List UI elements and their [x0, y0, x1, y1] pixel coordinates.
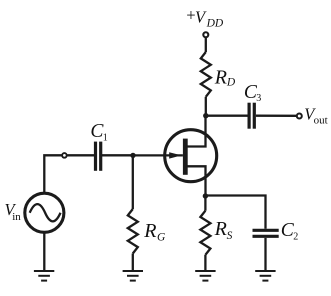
node drain junction — [203, 113, 208, 118]
source Vin sine wave — [30, 204, 61, 221]
svg-text:3: 3 — [256, 93, 261, 104]
svg-text:2: 2 — [293, 232, 298, 243]
svg-text:G: G — [157, 232, 166, 244]
wire C1 to gate node — [102, 154, 133, 156]
transistor Q1 JFET circle — [165, 130, 217, 182]
ground below Vin — [34, 271, 54, 281]
wire drain node to C3 — [206, 115, 248, 117]
terminal input — [62, 153, 67, 158]
wire RG to ground — [132, 254, 134, 271]
capacitor C3 — [249, 103, 254, 129]
label RS — [214, 218, 233, 242]
ground below RG — [123, 271, 143, 281]
wire VDD terminal to RD top — [205, 38, 207, 52]
svg-text:in: in — [12, 211, 21, 223]
svg-text:D: D — [226, 77, 236, 89]
terminal VDD — [203, 32, 208, 37]
wire source node to RS — [204, 196, 206, 211]
wire C2 to ground — [264, 238, 266, 270]
label RG — [143, 220, 166, 244]
transistor Q1 drain tap — [186, 117, 206, 147]
capacitor C1 — [96, 142, 101, 171]
node gate junction — [130, 153, 135, 158]
svg-text:out: out — [314, 114, 328, 126]
wire RS to ground — [204, 255, 206, 270]
resistor RS — [200, 211, 210, 255]
capacitor C2 — [253, 230, 279, 236]
wire C3 to Vout terminal — [256, 115, 297, 117]
svg-text:V: V — [195, 7, 207, 26]
wire input terminal to C1 — [67, 154, 94, 156]
svg-text:R: R — [143, 220, 156, 242]
svg-text:R: R — [214, 66, 227, 88]
label +VDD — [185, 6, 224, 30]
wire source node to C2 — [205, 196, 265, 229]
svg-text:1: 1 — [103, 132, 108, 143]
resistor RD — [201, 52, 211, 97]
transistor Q1 channel bar — [183, 139, 188, 175]
wire Vin top corner to input terminal — [44, 155, 62, 193]
ground below RS — [195, 271, 215, 281]
svg-text:S: S — [227, 230, 233, 242]
source Vin circle — [25, 193, 64, 232]
label RD — [214, 66, 236, 88]
label Vout — [304, 104, 327, 126]
label Vin — [5, 200, 22, 223]
transistor Q1 gate wire with arrow — [134, 154, 183, 156]
label C3 — [244, 82, 261, 104]
transistor Q1 source tap — [186, 166, 206, 196]
svg-text:R: R — [214, 218, 227, 240]
wire Vin bottom to ground — [43, 233, 45, 270]
terminal Vout — [297, 114, 302, 119]
label C2 — [281, 220, 298, 243]
ground below C2 — [255, 271, 275, 281]
label C1 — [90, 121, 107, 143]
resistor RG — [128, 209, 138, 254]
wire RD bottom to drain node — [205, 97, 207, 116]
node source junction — [203, 193, 208, 198]
svg-text:DD: DD — [206, 18, 224, 30]
wire gate node down to RG — [132, 155, 134, 209]
